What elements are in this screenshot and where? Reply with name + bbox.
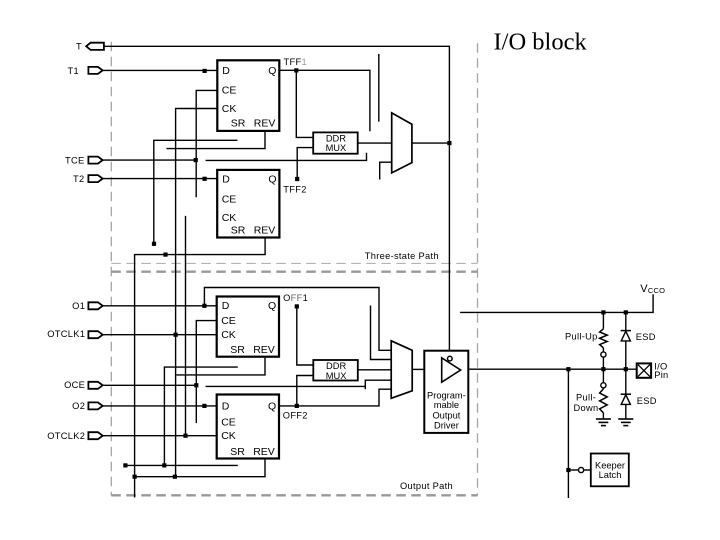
svg-text:Q: Q — [268, 65, 276, 77]
svg-text:Pull-: Pull- — [576, 393, 596, 403]
svg-text:Q: Q — [268, 173, 276, 185]
svg-text:ESD: ESD — [636, 332, 656, 342]
svg-text:REV: REV — [254, 224, 276, 236]
svg-text:T: T — [76, 41, 82, 51]
svg-text:SR: SR — [230, 344, 245, 356]
svg-text:MUX: MUX — [326, 143, 347, 153]
svg-text:MUX: MUX — [326, 371, 347, 381]
svg-text:D: D — [222, 300, 230, 312]
svg-text:REV: REV — [253, 446, 275, 458]
svg-text:Q: Q — [268, 300, 276, 312]
svg-text:OCE: OCE — [64, 380, 85, 390]
svg-text:Down: Down — [574, 403, 599, 413]
svg-text:DDR: DDR — [326, 361, 346, 371]
svg-text:TFF1: TFF1 — [284, 57, 307, 67]
svg-text:SR: SR — [230, 446, 245, 458]
svg-text:CK: CK — [222, 212, 237, 224]
svg-text:Pin: Pin — [654, 370, 668, 380]
svg-text:Program-: Program- — [427, 391, 466, 401]
svg-text:Keeper: Keeper — [595, 460, 625, 470]
svg-text:O1: O1 — [72, 301, 85, 311]
svg-text:T1: T1 — [68, 66, 79, 76]
svg-text:SR: SR — [231, 224, 246, 236]
svg-text:CE: CE — [222, 85, 237, 97]
svg-text:OFF2: OFF2 — [283, 411, 308, 421]
svg-text:REV: REV — [253, 344, 275, 356]
svg-text:CK: CK — [221, 329, 236, 341]
svg-text:Latch: Latch — [599, 470, 622, 480]
svg-text:CK: CK — [222, 103, 237, 115]
svg-text:OFF1: OFF1 — [283, 293, 308, 303]
svg-text:CE: CE — [222, 193, 237, 205]
svg-text:CE: CE — [221, 416, 236, 428]
svg-text:DDR: DDR — [326, 134, 346, 144]
svg-text:T2: T2 — [73, 174, 84, 184]
svg-text:I/O block: I/O block — [494, 28, 588, 55]
svg-text:D: D — [222, 400, 230, 412]
svg-text:D: D — [222, 173, 230, 185]
svg-text:OTCLK2: OTCLK2 — [47, 431, 85, 441]
svg-text:Driver: Driver — [434, 420, 459, 430]
svg-text:CE: CE — [221, 315, 236, 327]
svg-text:D: D — [222, 65, 230, 77]
svg-text:Three-state Path: Three-state Path — [365, 251, 439, 261]
svg-text:ESD: ESD — [637, 396, 657, 406]
svg-text:Output Path: Output Path — [400, 481, 453, 491]
svg-text:Output: Output — [432, 410, 460, 420]
svg-text:O2: O2 — [72, 401, 85, 411]
svg-text:TCE: TCE — [65, 156, 85, 166]
svg-text:SR: SR — [231, 118, 246, 130]
svg-text:mable: mable — [434, 400, 459, 410]
svg-text:CK: CK — [221, 430, 236, 442]
svg-text:OTCLK1: OTCLK1 — [47, 329, 85, 339]
svg-text:Q: Q — [268, 400, 276, 412]
svg-text:REV: REV — [254, 118, 276, 130]
svg-text:TFF2: TFF2 — [283, 184, 306, 194]
svg-text:Pull-Up: Pull-Up — [565, 331, 598, 341]
